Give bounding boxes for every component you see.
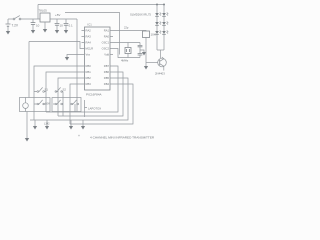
svg-text:+5V: +5V — [55, 13, 60, 17]
svg-text:78L05: 78L05 — [39, 9, 48, 13]
svg-text:2N4403: 2N4403 — [155, 72, 165, 76]
svg-text:RB3: RB3 — [86, 82, 92, 86]
svg-text:4MHz: 4MHz — [121, 59, 129, 63]
svg-text:0.1: 0.1 — [69, 24, 74, 28]
svg-text:RA3: RA3 — [86, 35, 92, 39]
svg-text:10: 10 — [36, 24, 40, 28]
svg-text:OSC1: OSC1 — [102, 41, 110, 45]
svg-text:LAPOTOX: LAPOTOX — [88, 107, 101, 111]
svg-text:RB7: RB7 — [104, 64, 110, 68]
svg-text:SLMD26X IRL75: SLMD26X IRL75 — [130, 13, 151, 17]
svg-text:+: + — [78, 134, 80, 138]
svg-text:IC1: IC1 — [88, 23, 93, 27]
svg-text:PIC16F84A: PIC16F84A — [86, 93, 102, 97]
svg-text:RA1: RA1 — [104, 29, 110, 33]
svg-text:RA4: RA4 — [86, 41, 92, 45]
svg-text:S2: S2 — [63, 88, 67, 92]
svg-text:Vss: Vss — [86, 53, 91, 57]
svg-text:RB5: RB5 — [104, 76, 110, 80]
svg-text:10K: 10K — [151, 33, 156, 37]
svg-text:RA2: RA2 — [86, 29, 92, 33]
svg-text:10: 10 — [60, 24, 64, 28]
svg-text:RB2: RB2 — [86, 76, 92, 80]
svg-text:RB4: RB4 — [104, 82, 110, 86]
svg-text:Vdd: Vdd — [104, 53, 109, 57]
svg-text:MCLR: MCLR — [86, 47, 94, 51]
svg-text:RA0: RA0 — [104, 35, 110, 39]
svg-text:10K: 10K — [45, 102, 50, 106]
svg-text:4 CHANNEL MINI INFRARED TRANSM: 4 CHANNEL MINI INFRARED TRANSMITTER — [90, 136, 155, 140]
svg-text:7.2V: 7.2V — [12, 24, 19, 28]
svg-text:RB0: RB0 — [86, 64, 92, 68]
svg-text:OSC2: OSC2 — [102, 47, 110, 51]
svg-text:22p: 22p — [124, 26, 129, 30]
svg-text:RB1: RB1 — [86, 70, 92, 74]
svg-text:RB6: RB6 — [104, 70, 110, 74]
svg-text:S1: S1 — [45, 88, 49, 92]
svg-text:L342: L342 — [44, 122, 50, 125]
